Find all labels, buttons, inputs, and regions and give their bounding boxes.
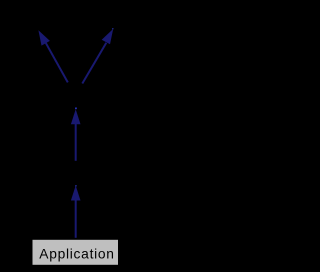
svg-text:Application: Application: [39, 246, 114, 261]
arrowhead to top-right parent: [102, 29, 114, 44]
arrowhead to top-left parent: [38, 30, 50, 45]
arrowhead middle vertical: [71, 109, 81, 124]
node Application (box): [32, 239, 119, 265]
wire: lower vertical edge from Application (line): [75, 200, 77, 238]
wire: edge to top-right parent (line): [82, 43, 106, 84]
arrowhead tip highlight lower: [75, 185, 77, 186]
arrowhead tip highlight right diagonal: [112, 28, 113, 29]
wire: edge to top-left parent (line): [45, 41, 68, 82]
wire: middle vertical edge (line): [75, 123, 77, 161]
arrowhead tip highlight middle: [75, 108, 77, 110]
arrowhead lower vertical: [71, 186, 81, 201]
